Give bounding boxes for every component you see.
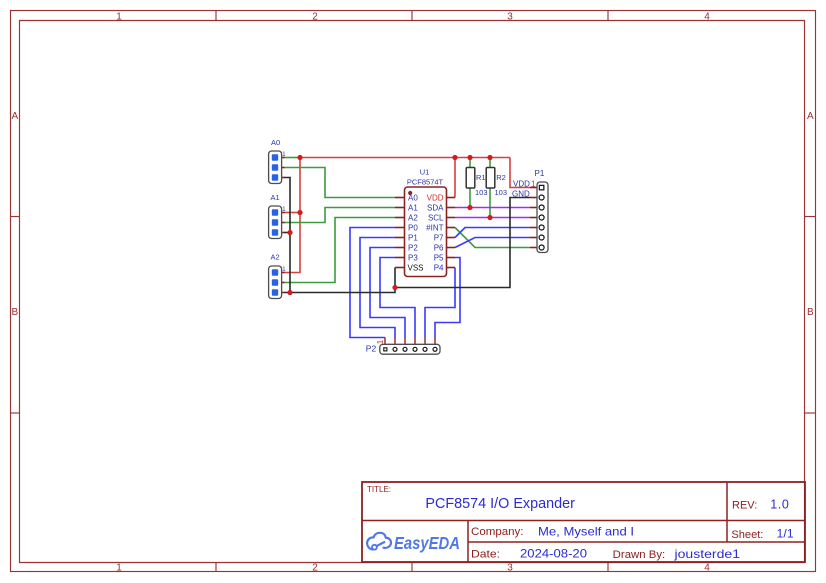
wire A0 pin2 to chip A0 xyxy=(284,168,395,198)
wire A1 pin3 stub xyxy=(284,232,290,234)
svg-text:103: 103 xyxy=(475,188,488,197)
wire R1 bottom to SDA xyxy=(469,188,471,208)
svg-text:B: B xyxy=(807,307,814,318)
wire R2 bottom to SCL xyxy=(489,188,491,218)
junction VSS/GND xyxy=(392,285,397,290)
svg-text:1: 1 xyxy=(116,12,122,23)
svg-text:SCL: SCL xyxy=(428,213,444,222)
svg-text:P6: P6 xyxy=(434,243,444,252)
wire SCL xyxy=(455,217,530,219)
svg-text:A2: A2 xyxy=(271,253,280,262)
svg-text:A2: A2 xyxy=(408,213,418,222)
wire P3 to P2.4 xyxy=(380,258,415,338)
wire R2 top xyxy=(489,158,491,168)
wire P1 to P2.2 xyxy=(360,238,395,338)
wire GND to P1.2 xyxy=(395,198,530,288)
junction A0.1/VDD xyxy=(297,155,302,160)
wire R1 top xyxy=(469,158,471,168)
svg-text:Date:: Date: xyxy=(471,549,500,561)
wire VDD to P1 pin1 xyxy=(510,158,530,188)
svg-text:Me, Myself and I: Me, Myself and I xyxy=(538,525,634,539)
title block xyxy=(362,482,805,562)
svg-text:P7: P7 xyxy=(434,233,444,242)
junction A2.3 xyxy=(287,290,292,295)
junction A1.3 xyxy=(287,230,292,235)
svg-text:1: 1 xyxy=(376,339,385,344)
svg-text:1: 1 xyxy=(531,179,536,188)
connector A2 xyxy=(269,253,287,299)
chip body xyxy=(405,187,447,277)
svg-text:VDD: VDD xyxy=(427,193,444,202)
svg-text:A: A xyxy=(807,111,814,122)
wire A0 pin1 green xyxy=(284,157,300,159)
resistor R2 xyxy=(486,168,507,198)
connector A0 xyxy=(269,138,287,184)
P2 pin1 square pad xyxy=(384,348,387,351)
wire GND chain A0.3 A1.3 A2.3 xyxy=(284,178,290,293)
svg-text:#INT: #INT xyxy=(426,223,443,232)
svg-text:P2: P2 xyxy=(408,243,418,252)
P1 pin1 square pad xyxy=(539,185,544,190)
wire A2 pin2 to chip A2 xyxy=(284,218,395,283)
svg-text:U1: U1 xyxy=(420,168,430,177)
svg-text:A1: A1 xyxy=(271,193,280,202)
wire VDD main horizontal xyxy=(300,157,510,159)
svg-text:Sheet:: Sheet: xyxy=(731,529,763,541)
svg-text:A1: A1 xyxy=(408,203,418,212)
svg-text:R1: R1 xyxy=(476,173,486,182)
svg-text:3: 3 xyxy=(507,12,513,23)
wire INT to P1.7 green xyxy=(455,228,530,248)
junction R2/SCL xyxy=(487,215,492,220)
wire P2 to P2.3 xyxy=(370,248,405,338)
svg-text:P0: P0 xyxy=(408,223,418,232)
svg-text:4: 4 xyxy=(704,563,710,574)
title block texts xyxy=(367,485,794,561)
junction A1.1 xyxy=(297,210,302,215)
wire A1 pin1 stub xyxy=(284,212,300,214)
chip pin1 mark xyxy=(408,191,412,195)
svg-text:TITLE:: TITLE: xyxy=(367,485,391,494)
svg-text:P2: P2 xyxy=(366,344,377,354)
svg-text:Company:: Company: xyxy=(471,526,524,538)
svg-text:PCF8574 I/O Expander: PCF8574 I/O Expander xyxy=(425,495,575,512)
wire A1 pin2 to chip A1 xyxy=(284,208,395,223)
chip left pin stubs xyxy=(395,198,405,268)
svg-text:1: 1 xyxy=(116,563,122,574)
svg-text:A0: A0 xyxy=(408,193,418,202)
P2 round pads xyxy=(393,347,437,351)
wire P6 to P1.6 xyxy=(455,238,530,248)
resistor R1 xyxy=(466,168,487,198)
EasyEDA logo xyxy=(367,533,460,553)
connector A1 xyxy=(269,193,287,239)
svg-text:2024-08-20: 2024-08-20 xyxy=(520,547,587,561)
svg-text:jousterde1: jousterde1 xyxy=(673,547,740,561)
IC U1 PCF8574T xyxy=(395,168,455,277)
P1 round pads xyxy=(539,195,544,250)
junction R1/SDA xyxy=(467,205,472,210)
svg-text:R2: R2 xyxy=(496,173,506,182)
svg-text:A0: A0 xyxy=(271,138,280,147)
wire SDA xyxy=(455,207,530,209)
svg-text:PCF8574T: PCF8574T xyxy=(407,178,444,187)
svg-text:2: 2 xyxy=(312,12,318,23)
svg-text:GND: GND xyxy=(512,189,530,198)
svg-text:B: B xyxy=(11,307,18,318)
junction VDD chip drop xyxy=(452,155,457,160)
svg-text:REV:: REV: xyxy=(732,500,757,512)
svg-text:P1: P1 xyxy=(535,169,545,178)
wire P0 to P2.1 xyxy=(350,228,395,338)
wire A2.3 to VSS junction xyxy=(284,288,395,293)
wire VSS down xyxy=(394,268,396,288)
svg-text:P5: P5 xyxy=(434,253,444,262)
wire P5 to P2.6 xyxy=(435,258,460,338)
svg-text:P4: P4 xyxy=(434,263,444,272)
junction R1 top xyxy=(467,155,472,160)
svg-text:SDA: SDA xyxy=(427,203,444,212)
svg-text:EasyEDA: EasyEDA xyxy=(394,533,460,553)
junction dots xyxy=(287,155,492,295)
chip left pin names xyxy=(408,193,424,272)
svg-text:3: 3 xyxy=(507,563,513,574)
svg-text:1/1: 1/1 xyxy=(777,527,794,541)
chip right pin names xyxy=(426,193,444,272)
svg-text:1.0: 1.0 xyxy=(770,497,789,511)
chip right pin stubs xyxy=(447,198,456,268)
wire VDD drop to chip xyxy=(454,158,456,198)
P2 pin stubs xyxy=(385,338,435,345)
svg-text:103: 103 xyxy=(495,188,508,197)
svg-text:4: 4 xyxy=(704,12,710,23)
svg-text:A: A xyxy=(11,111,18,122)
svg-text:VDD: VDD xyxy=(513,179,530,188)
connector P2 xyxy=(366,338,440,355)
svg-text:2: 2 xyxy=(312,563,318,574)
wire P4 to P2.5 xyxy=(425,268,455,338)
P1 pin stubs xyxy=(530,188,538,248)
svg-text:P3: P3 xyxy=(408,253,418,262)
svg-text:Drawn By:: Drawn By: xyxy=(613,549,666,561)
wire VDD vertical A0.1-A1.1-A2.1 xyxy=(284,158,300,273)
junction R2 top xyxy=(487,155,492,160)
wire P7 to P1.5 xyxy=(455,228,530,238)
svg-text:P1: P1 xyxy=(408,233,418,242)
connector P1 xyxy=(530,169,548,253)
svg-text:VSS: VSS xyxy=(408,263,424,272)
